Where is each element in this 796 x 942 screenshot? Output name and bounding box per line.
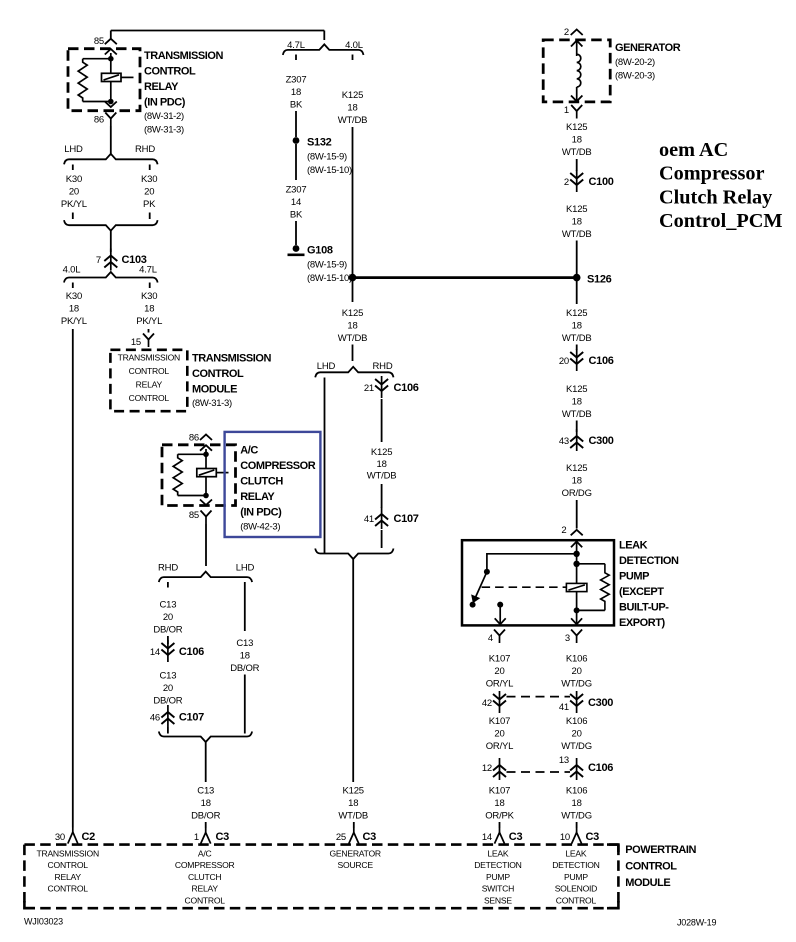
wire drop to engine split bbox=[323, 31, 325, 41]
wire label K30 20 PK/YL (LHD) bbox=[61, 174, 87, 210]
generator internal wire bottom with arrow bbox=[571, 87, 582, 102]
wire label K125 18 WT/DB (RHD) bbox=[367, 447, 397, 482]
svg-text:C300: C300 bbox=[588, 697, 613, 709]
TCM pin 15 female connector bbox=[143, 334, 154, 348]
split brace 4.0L/4.7L under C103 bbox=[64, 272, 158, 283]
LDP actuation dashed link bbox=[482, 586, 567, 588]
wire label K106 20 WT/DG (upper) bbox=[561, 654, 592, 690]
svg-text:OR/PK: OR/PK bbox=[485, 811, 514, 822]
connector C106 pin 13 bbox=[570, 758, 583, 780]
svg-text:LHD: LHD bbox=[236, 563, 255, 574]
svg-text:86: 86 bbox=[189, 433, 199, 444]
LDP switch pivot bbox=[484, 569, 490, 575]
svg-text:LHD: LHD bbox=[317, 361, 336, 372]
svg-text:LEAK: LEAK bbox=[619, 540, 648, 552]
svg-text:WT/DG: WT/DG bbox=[561, 741, 592, 752]
svg-text:86: 86 bbox=[94, 115, 104, 126]
svg-text:(8W-31-3): (8W-31-3) bbox=[192, 398, 232, 409]
svg-text:PUMP: PUMP bbox=[619, 571, 649, 583]
svg-text:C106: C106 bbox=[179, 646, 204, 658]
svg-text:CONTROL: CONTROL bbox=[144, 66, 196, 78]
wire label K30 18 PK/YL (4.0L) bbox=[61, 291, 87, 327]
wire Z307 below S132 bbox=[295, 144, 297, 180]
svg-text:WJI03023: WJI03023 bbox=[24, 917, 63, 927]
svg-text:S132: S132 bbox=[307, 137, 332, 149]
LDP pin 3 female connector bbox=[571, 630, 582, 644]
PCM pin 10 fork bbox=[572, 828, 582, 844]
connector C103 pin 7 bbox=[104, 249, 117, 271]
transmission control module dashed box bbox=[110, 350, 187, 411]
svg-text:oem AC: oem AC bbox=[659, 139, 728, 161]
TCR relay coil bbox=[102, 73, 122, 81]
merge brace to C103 bbox=[64, 220, 158, 231]
svg-text:(8W-15-9): (8W-15-9) bbox=[307, 152, 347, 163]
svg-text:WT/DB: WT/DB bbox=[562, 409, 592, 420]
svg-text:CONTROL: CONTROL bbox=[192, 368, 244, 380]
svg-text:18: 18 bbox=[377, 459, 387, 470]
blue highlight box around A/C relay name bbox=[225, 432, 321, 537]
svg-text:(8W-15-10): (8W-15-10) bbox=[307, 165, 352, 176]
svg-text:4.0L: 4.0L bbox=[63, 265, 81, 276]
svg-text:K107: K107 bbox=[489, 654, 510, 665]
ACR resistor top lead bbox=[178, 453, 206, 455]
LDP internal wire down to solenoid bbox=[576, 554, 578, 625]
svg-text:WT/DG: WT/DG bbox=[561, 679, 592, 690]
svg-text:C3: C3 bbox=[509, 831, 523, 843]
TCR resistor top lead bbox=[83, 58, 111, 60]
svg-text:(8W-15-9): (8W-15-9) bbox=[307, 260, 347, 271]
svg-text:CONTROL: CONTROL bbox=[556, 895, 597, 905]
svg-text:(IN PDC): (IN PDC) bbox=[240, 507, 282, 519]
svg-text:OR/YL: OR/YL bbox=[486, 679, 514, 690]
LHD branch tick 2 bbox=[72, 213, 74, 220]
svg-text:PK/YL: PK/YL bbox=[61, 199, 87, 210]
splice S126 bbox=[573, 274, 581, 282]
svg-text:TRANSMISSION: TRANSMISSION bbox=[36, 849, 98, 859]
svg-text:C13: C13 bbox=[236, 638, 253, 649]
svg-text:C100: C100 bbox=[589, 176, 614, 188]
wire K125 to C100 bbox=[576, 159, 578, 171]
svg-text:18: 18 bbox=[572, 217, 582, 228]
PCM pin 1 function label bbox=[175, 849, 235, 906]
svg-text:K125: K125 bbox=[342, 308, 363, 319]
svg-text:K125: K125 bbox=[566, 463, 587, 474]
svg-text:WT/DB: WT/DB bbox=[562, 333, 592, 344]
wire Z307 to ground G108 bbox=[295, 221, 297, 245]
svg-text:CONTROL: CONTROL bbox=[185, 895, 226, 905]
wire label Z307 18 BK bbox=[286, 75, 307, 111]
svg-text:TRANSMISSION: TRANSMISSION bbox=[118, 353, 180, 363]
connector C100 pin 2 bbox=[570, 170, 583, 192]
svg-text:K107: K107 bbox=[489, 716, 510, 727]
svg-text:K125: K125 bbox=[371, 447, 392, 458]
ACR resistor bottom lead bbox=[178, 495, 206, 497]
wire label K30 20 PK (RHD) bbox=[141, 174, 157, 210]
svg-text:DETECTION: DETECTION bbox=[552, 860, 599, 870]
generator pin 2 connector arrow bbox=[571, 30, 583, 36]
svg-text:Control_PCM: Control_PCM bbox=[659, 210, 783, 232]
LDP pin 2 connector arrow bbox=[571, 530, 583, 536]
svg-text:DB/OR: DB/OR bbox=[153, 696, 182, 707]
svg-text:DETECTION: DETECTION bbox=[619, 555, 679, 567]
wire label K125 18 OR/DG bbox=[562, 463, 592, 499]
svg-text:CONTROL: CONTROL bbox=[129, 393, 170, 403]
wire label K106 18 WT/DG bbox=[561, 786, 592, 822]
PCM pin 14 fork bbox=[495, 828, 505, 844]
svg-text:RELAY: RELAY bbox=[240, 491, 275, 503]
svg-text:(8W-42-3): (8W-42-3) bbox=[240, 522, 280, 533]
svg-text:46: 46 bbox=[150, 713, 160, 724]
svg-text:20: 20 bbox=[144, 187, 154, 198]
connector C106 pin 20 bbox=[570, 349, 583, 371]
svg-text:BUILT-UP-: BUILT-UP- bbox=[619, 602, 669, 614]
wire label K125 18 WT/DB (4.0L top) bbox=[338, 90, 368, 126]
TCR node bottom bbox=[108, 99, 114, 105]
svg-text:K30: K30 bbox=[66, 174, 82, 185]
svg-text:14: 14 bbox=[150, 647, 160, 658]
4.0L tick bbox=[72, 283, 74, 289]
connector C106 pin 12 bbox=[493, 758, 506, 780]
svg-text:20: 20 bbox=[163, 683, 173, 694]
svg-text:(8W-15-10): (8W-15-10) bbox=[307, 273, 352, 284]
TCR coil resistor bbox=[78, 59, 87, 102]
LDP resistor bbox=[601, 564, 610, 611]
wire K125 RHD bbox=[381, 399, 383, 442]
wire label K125 18 WT/DB (to C106) bbox=[562, 308, 592, 344]
LDP solenoid coil bbox=[566, 583, 587, 591]
4.0L tick bbox=[352, 55, 354, 61]
svg-text:LEAK: LEAK bbox=[487, 849, 508, 859]
wire 4.7L branch to TCM bbox=[148, 329, 150, 333]
wire Z307 to splice S132 bbox=[295, 111, 297, 137]
svg-text:RELAY: RELAY bbox=[55, 872, 82, 882]
connector C106 pin 21 bbox=[375, 376, 388, 398]
svg-text:DETECTION: DETECTION bbox=[474, 860, 521, 870]
svg-text:CONTROL: CONTROL bbox=[48, 860, 89, 870]
svg-text:K125: K125 bbox=[342, 90, 363, 101]
connector C300 pin 41 bbox=[570, 691, 583, 713]
PCM name label bbox=[625, 844, 696, 889]
svg-text:13: 13 bbox=[559, 755, 569, 766]
svg-text:15: 15 bbox=[131, 337, 141, 348]
wire K125 below S126 bbox=[576, 281, 578, 304]
split brace 4.7L/4.0L engines bbox=[283, 44, 364, 55]
svg-text:RELAY: RELAY bbox=[192, 884, 219, 894]
svg-text:BK: BK bbox=[290, 210, 303, 221]
PCM pin 25 function label bbox=[330, 849, 381, 871]
svg-text:C13: C13 bbox=[197, 786, 214, 797]
svg-text:PUMP: PUMP bbox=[564, 872, 588, 882]
connector C106 pin 14 bbox=[161, 640, 174, 662]
ACR coil resistor bbox=[173, 454, 182, 495]
svg-text:K125: K125 bbox=[566, 122, 587, 133]
split brace LHD/RHD under TCR bbox=[64, 154, 158, 165]
svg-text:Clutch Relay: Clutch Relay bbox=[659, 186, 772, 208]
svg-text:C3: C3 bbox=[363, 831, 377, 843]
svg-text:C300: C300 bbox=[589, 435, 614, 447]
connector C300 pin 42 bbox=[493, 691, 506, 713]
wire RHD below C107 bbox=[167, 727, 169, 734]
svg-text:PUMP: PUMP bbox=[486, 872, 510, 882]
svg-text:C106: C106 bbox=[589, 355, 614, 367]
TCR pin 86 connector arrows bbox=[105, 102, 117, 108]
svg-text:CONTROL: CONTROL bbox=[129, 366, 170, 376]
wire K106 into PCM bbox=[576, 822, 578, 828]
svg-text:12: 12 bbox=[482, 763, 492, 774]
svg-text:18: 18 bbox=[240, 651, 250, 662]
svg-text:PK/YL: PK/YL bbox=[136, 316, 162, 327]
svg-text:WT/DB: WT/DB bbox=[338, 333, 368, 344]
svg-text:K30: K30 bbox=[141, 174, 157, 185]
svg-text:BK: BK bbox=[290, 100, 303, 111]
svg-text:20: 20 bbox=[494, 666, 504, 677]
svg-text:POWERTRAIN: POWERTRAIN bbox=[625, 844, 696, 856]
svg-text:18: 18 bbox=[572, 321, 582, 332]
svg-text:Compressor: Compressor bbox=[659, 163, 765, 185]
leak detection pump box bbox=[462, 540, 614, 625]
LHD branch tick bbox=[72, 165, 74, 171]
PCM pin 30 fork bbox=[68, 828, 78, 844]
svg-text:2: 2 bbox=[564, 27, 569, 38]
ACR pin 86 connector arrows bbox=[200, 435, 212, 451]
wire K125 RHD to C107 bbox=[381, 484, 383, 508]
svg-text:18: 18 bbox=[572, 476, 582, 487]
generator field coil bbox=[577, 54, 581, 87]
LDP node to switch feed bbox=[573, 551, 579, 557]
svg-text:18: 18 bbox=[572, 798, 582, 809]
wire K125 to C106 bbox=[576, 345, 578, 351]
svg-text:RHD: RHD bbox=[158, 563, 178, 574]
svg-text:C3: C3 bbox=[216, 831, 230, 843]
RHD branch tick bbox=[149, 165, 151, 171]
svg-text:A/C: A/C bbox=[240, 445, 258, 457]
LDP name label bbox=[619, 540, 679, 630]
svg-text:RHD: RHD bbox=[373, 361, 393, 372]
PCM pin 14 function label bbox=[474, 849, 521, 906]
wire C13 into PCM bbox=[205, 822, 207, 828]
wire K125 down to S126 tie bbox=[352, 127, 354, 278]
svg-text:WT/DG: WT/DG bbox=[561, 811, 592, 822]
PCM pin 25 fork bbox=[349, 828, 359, 844]
svg-text:EXPORT): EXPORT) bbox=[619, 617, 666, 629]
svg-text:CONTROL: CONTROL bbox=[48, 884, 89, 894]
TCR pin 85 connector arrows bbox=[105, 39, 117, 55]
wire label K107 18 OR/PK bbox=[485, 786, 514, 822]
ground G108 symbol bbox=[288, 245, 305, 255]
svg-text:SENSE: SENSE bbox=[484, 895, 512, 905]
PCM pin 10 function label bbox=[552, 849, 599, 906]
svg-text:S126: S126 bbox=[587, 274, 612, 286]
svg-text:OR/DG: OR/DG bbox=[562, 488, 592, 499]
wire K125 below tie bbox=[352, 281, 354, 302]
svg-text:(8W-31-2): (8W-31-2) bbox=[144, 111, 184, 122]
LDP switch feed wire bbox=[487, 554, 577, 569]
G108 label bbox=[307, 245, 352, 285]
merge brace to PCM pin 1 bbox=[159, 732, 252, 743]
wire label K30 18 PK/YL (4.7L) bbox=[136, 291, 162, 327]
svg-text:K125: K125 bbox=[566, 204, 587, 215]
svg-text:4.7L: 4.7L bbox=[139, 265, 157, 276]
svg-text:18: 18 bbox=[201, 798, 211, 809]
svg-text:K125: K125 bbox=[566, 384, 587, 395]
svg-text:18: 18 bbox=[348, 798, 358, 809]
svg-text:18: 18 bbox=[144, 304, 154, 315]
svg-text:OR/YL: OR/YL bbox=[486, 741, 514, 752]
wire label C13 20 DB/OR (RHD upper) bbox=[153, 600, 182, 636]
wire label K125 18 WT/DB (mid) bbox=[338, 308, 368, 344]
wire K30 from TCR pin 86 bbox=[110, 126, 112, 156]
C300 bulkhead dashed link bbox=[507, 696, 571, 698]
svg-text:SOLENOID: SOLENOID bbox=[555, 884, 597, 894]
wire label K125 18 WT/DB (below C100) bbox=[562, 204, 592, 240]
svg-text:RHD: RHD bbox=[135, 144, 155, 155]
svg-text:K106: K106 bbox=[566, 786, 587, 797]
svg-text:20: 20 bbox=[494, 729, 504, 740]
svg-text:(IN PDC): (IN PDC) bbox=[144, 97, 186, 109]
svg-text:CLUTCH: CLUTCH bbox=[240, 476, 283, 488]
svg-text:GENERATOR: GENERATOR bbox=[330, 849, 381, 859]
svg-text:WT/DB: WT/DB bbox=[367, 471, 397, 482]
svg-text:PK: PK bbox=[143, 199, 156, 210]
svg-text:SOURCE: SOURCE bbox=[338, 860, 374, 870]
connector C107 pin 46 bbox=[161, 705, 174, 727]
svg-text:COMPRESSOR: COMPRESSOR bbox=[240, 460, 315, 472]
wire heavy tie to S126 bbox=[353, 276, 577, 279]
wire K125 long run to PCM pin 25 bbox=[352, 559, 354, 782]
svg-text:(8W-20-2): (8W-20-2) bbox=[615, 57, 655, 68]
svg-text:C2: C2 bbox=[82, 831, 96, 843]
wire to connector C103 bbox=[110, 231, 112, 252]
svg-text:LHD: LHD bbox=[64, 144, 83, 155]
svg-text:20: 20 bbox=[572, 666, 582, 677]
connector C107 pin 41 bbox=[375, 507, 388, 529]
LDP switch contact node bbox=[470, 602, 476, 608]
svg-text:42: 42 bbox=[482, 698, 492, 709]
wire LHD branch long run bbox=[324, 378, 326, 554]
wire LHD branch lower bbox=[244, 675, 246, 734]
svg-text:43: 43 bbox=[559, 436, 569, 447]
wire label K107 20 OR/YL (upper) bbox=[486, 654, 514, 690]
PCM pin 30 function label bbox=[36, 849, 98, 894]
svg-text:4: 4 bbox=[488, 633, 493, 644]
split brace RHD/LHD under ACR bbox=[159, 572, 252, 583]
LDP node to solenoid feed bbox=[573, 561, 579, 567]
svg-text:K107: K107 bbox=[489, 786, 510, 797]
splice S132 bbox=[293, 137, 300, 144]
svg-text:C107: C107 bbox=[394, 513, 419, 525]
svg-text:(EXCEPT: (EXCEPT bbox=[619, 586, 664, 598]
svg-text:30: 30 bbox=[55, 832, 65, 843]
wire label K125 18 WT/DB (generator) bbox=[562, 122, 592, 158]
svg-text:C13: C13 bbox=[159, 600, 176, 611]
wire C13 from ACR pin 85 bbox=[205, 524, 207, 566]
connector C300 pin 43 bbox=[570, 429, 583, 451]
TCR node top bbox=[108, 56, 114, 62]
svg-text:85: 85 bbox=[94, 36, 104, 47]
svg-text:WT/DB: WT/DB bbox=[562, 147, 592, 158]
ACR relay coil bbox=[197, 469, 217, 477]
wire C13 to C106 bbox=[167, 636, 169, 644]
svg-text:20: 20 bbox=[163, 612, 173, 623]
svg-text:K125: K125 bbox=[343, 786, 364, 797]
svg-text:1: 1 bbox=[564, 105, 569, 116]
svg-text:K106: K106 bbox=[566, 654, 587, 665]
svg-text:C107: C107 bbox=[179, 712, 204, 724]
wire label K106 20 WT/DG (lower) bbox=[561, 716, 592, 752]
LDP switch arm with arrowhead bbox=[472, 572, 487, 603]
svg-text:20: 20 bbox=[69, 187, 79, 198]
generator name label bbox=[615, 42, 681, 82]
svg-text:GENERATOR: GENERATOR bbox=[615, 42, 681, 54]
RHD tick bbox=[167, 582, 169, 588]
svg-text:21: 21 bbox=[364, 383, 374, 394]
wire RHD below C107 bbox=[381, 530, 383, 548]
TCR internal wire bbox=[110, 53, 112, 102]
svg-text:C13: C13 bbox=[159, 671, 176, 682]
svg-text:2: 2 bbox=[561, 525, 566, 536]
svg-text:K125: K125 bbox=[566, 308, 587, 319]
svg-text:41: 41 bbox=[364, 514, 374, 525]
svg-text:A/C: A/C bbox=[198, 849, 212, 859]
ACR coil stub to case bbox=[216, 472, 228, 474]
svg-text:Z307: Z307 bbox=[286, 185, 307, 196]
svg-text:WT/DB: WT/DB bbox=[338, 115, 368, 126]
svg-text:18: 18 bbox=[291, 87, 301, 98]
wire K125 to splice S126 bbox=[576, 241, 578, 278]
C106 bulkhead dashed link bbox=[507, 771, 571, 773]
svg-text:41: 41 bbox=[559, 702, 569, 713]
svg-text:18: 18 bbox=[69, 304, 79, 315]
wire label C13 20 DB/OR (RHD lower) bbox=[153, 671, 182, 707]
svg-text:J028W-19: J028W-19 bbox=[677, 918, 716, 928]
LDP pin 3 wire arrow bbox=[571, 618, 582, 624]
svg-text:10: 10 bbox=[560, 832, 570, 843]
svg-text:14: 14 bbox=[291, 197, 301, 208]
wire label Z307 14 BK bbox=[286, 185, 307, 221]
svg-text:(8W-31-3): (8W-31-3) bbox=[144, 125, 184, 136]
merge brace generator wire bbox=[315, 549, 393, 560]
LDP pin 4 female connector bbox=[494, 630, 505, 644]
svg-text:K30: K30 bbox=[66, 291, 82, 302]
svg-text:SWITCH: SWITCH bbox=[482, 884, 514, 894]
TCR pin 86 female connector bbox=[105, 113, 116, 127]
ACR pin 85 connector arrows bbox=[200, 500, 212, 506]
svg-text:18: 18 bbox=[347, 103, 357, 114]
svg-text:(8W-20-3): (8W-20-3) bbox=[615, 71, 655, 82]
ACR pin 85 female connector bbox=[201, 511, 212, 525]
svg-text:CLUTCH: CLUTCH bbox=[188, 872, 221, 882]
svg-text:LEAK: LEAK bbox=[565, 849, 586, 859]
split brace LHD/RHD generator wire bbox=[315, 367, 393, 378]
svg-text:MODULE: MODULE bbox=[625, 877, 670, 889]
svg-text:Z307: Z307 bbox=[286, 75, 307, 86]
svg-text:TRANSMISSION: TRANSMISSION bbox=[192, 353, 271, 365]
svg-text:18: 18 bbox=[572, 135, 582, 146]
generator pin 1 female connector bbox=[571, 105, 582, 119]
svg-text:20: 20 bbox=[559, 356, 569, 367]
svg-text:2: 2 bbox=[564, 177, 569, 188]
svg-text:G108: G108 bbox=[307, 245, 333, 257]
wire K125 to leak detection pump bbox=[576, 500, 578, 529]
wire C13 to PCM pin 1 bbox=[205, 742, 207, 782]
svg-text:DB/OR: DB/OR bbox=[191, 811, 220, 822]
wire K125 to LHD/RHD split bbox=[352, 345, 354, 362]
4.7L tick bbox=[149, 283, 151, 289]
svg-text:K106: K106 bbox=[566, 716, 587, 727]
LDP solenoid return node bbox=[574, 607, 580, 613]
ACR node top bbox=[203, 452, 209, 458]
svg-text:K30: K30 bbox=[141, 291, 157, 302]
